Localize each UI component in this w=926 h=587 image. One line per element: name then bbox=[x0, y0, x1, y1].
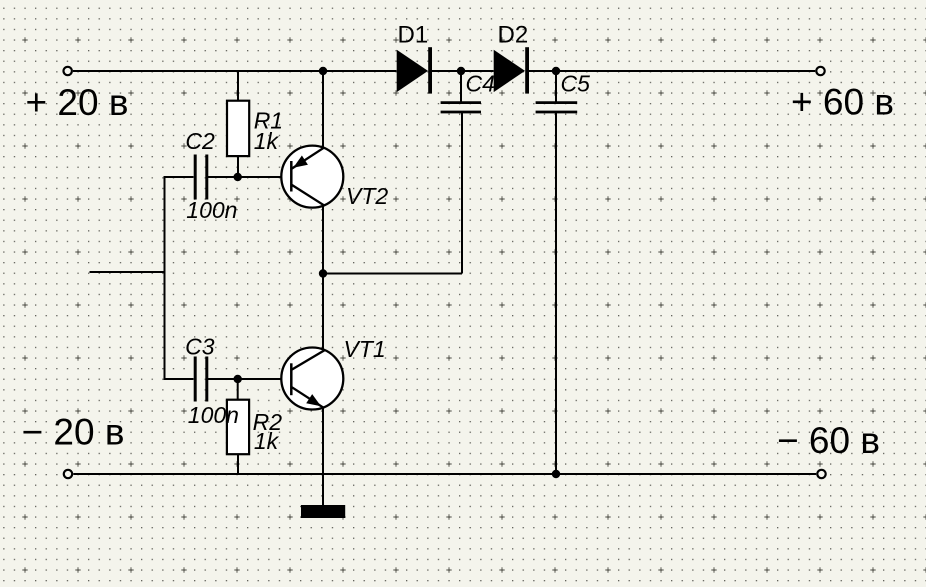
terminal top-left bbox=[63, 67, 71, 75]
wire VT2 collector up bbox=[322, 71, 324, 147]
wire C2 left bbox=[165, 176, 194, 178]
wire C4 top bbox=[460, 71, 462, 102]
wire C5 top bbox=[555, 71, 557, 102]
wire R1 bottom bbox=[237, 156, 239, 177]
wire C3 right to VT1 base bbox=[208, 378, 291, 380]
wire C3 left bbox=[165, 378, 194, 380]
terminal bottom-left bbox=[64, 470, 72, 478]
svg-text:100n: 100n bbox=[186, 197, 237, 223]
wire top rail between D1 and D2 bbox=[432, 70, 494, 72]
wire top rail right segment bbox=[529, 70, 815, 72]
transistor VT2 bbox=[281, 146, 343, 208]
node junction top rail at C5 bbox=[552, 67, 560, 75]
capacitor C5 bbox=[536, 103, 578, 112]
capacitor C3 bbox=[195, 357, 207, 402]
svg-text:C2: C2 bbox=[185, 128, 215, 154]
wire VT1 collector up bbox=[322, 274, 324, 351]
transistor VT1 bbox=[281, 348, 343, 410]
wire C5 bottom to rail bbox=[555, 113, 557, 474]
diode D2 bbox=[494, 47, 529, 93]
svg-text:1k: 1k bbox=[254, 128, 280, 154]
svg-text:1k: 1k bbox=[254, 428, 280, 454]
diode D1 bbox=[397, 47, 432, 93]
node junction middle wire bbox=[319, 269, 327, 277]
wire VT2 emitter down bbox=[322, 205, 324, 274]
svg-text:D2: D2 bbox=[498, 22, 529, 49]
wire C3 junction to R2 bbox=[237, 379, 239, 400]
svg-text:VT1: VT1 bbox=[344, 336, 386, 362]
svg-text:+ 60 в: + 60 в bbox=[791, 82, 894, 123]
wire left vertical feed bbox=[164, 176, 166, 380]
wire C4 bottom feed bbox=[461, 113, 463, 274]
svg-text:− 20 в: − 20 в bbox=[22, 412, 125, 453]
wire R1 top bbox=[237, 71, 239, 101]
resistor R2 bbox=[227, 400, 249, 455]
capacitor C4 bbox=[441, 103, 481, 112]
svg-text:D1: D1 bbox=[398, 22, 429, 49]
wire C2 right to VT2 base bbox=[208, 176, 291, 178]
svg-text:+ 20 в: + 20 в bbox=[26, 82, 129, 123]
node junction C2/R1/base bbox=[234, 173, 242, 181]
svg-text:VT2: VT2 bbox=[346, 183, 388, 209]
wire bottom rail bbox=[73, 473, 816, 475]
terminal bottom-right bbox=[817, 470, 825, 478]
svg-text:100n: 100n bbox=[188, 402, 239, 428]
node junction top rail at C4 bbox=[457, 67, 465, 75]
svg-text:− 60 в: − 60 в bbox=[777, 420, 880, 461]
wire R2 bottom bbox=[237, 454, 239, 474]
terminal top-right bbox=[816, 67, 824, 75]
ground bbox=[301, 505, 345, 518]
wire VT1 emitter to ground bbox=[322, 407, 324, 505]
node junction top rail at VT2 collector bbox=[319, 67, 327, 75]
node junction bottom rail at C5 bbox=[552, 470, 560, 478]
svg-text:C4: C4 bbox=[466, 70, 495, 96]
wire top rail left segment bbox=[73, 70, 397, 72]
node junction C3/R2/base bbox=[234, 375, 242, 383]
resistor R1 bbox=[227, 101, 249, 156]
svg-text:C5: C5 bbox=[561, 70, 591, 96]
capacitor C2 bbox=[195, 155, 207, 200]
svg-text:C3: C3 bbox=[185, 333, 215, 359]
wire middle horizontal bbox=[323, 273, 462, 275]
wire input stub bbox=[90, 271, 165, 273]
